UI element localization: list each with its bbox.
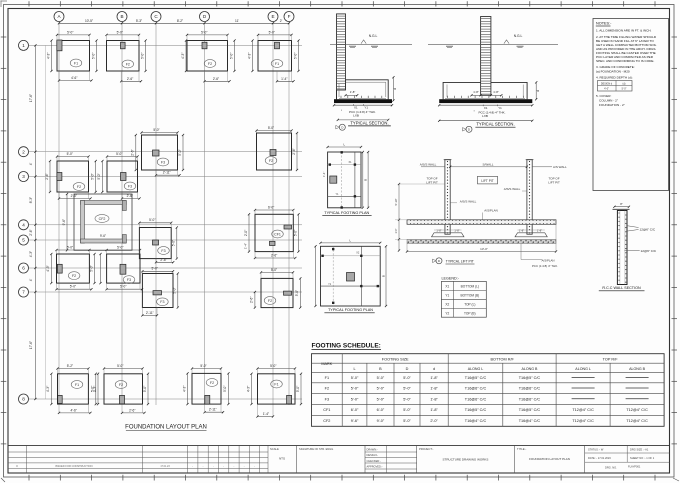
svg-text:1'-4": 1'-4" <box>244 243 248 249</box>
svg-text:X1: X1 <box>445 284 449 288</box>
svg-text:F3: F3 <box>161 160 165 164</box>
svg-text:5'-0": 5'-0" <box>117 30 123 34</box>
svg-text:Y1: Y1 <box>445 293 449 297</box>
svg-text:T12@4" C/C: T12@4" C/C <box>626 419 648 423</box>
svg-text:5'-0": 5'-0" <box>140 53 144 59</box>
svg-text:DESIGN:-: DESIGN:- <box>367 453 379 457</box>
svg-text:2'-6": 2'-6" <box>45 173 49 179</box>
svg-text:5'-0": 5'-0" <box>271 268 277 272</box>
svg-text:SHEET NO :- 1 OF 1: SHEET NO :- 1 OF 1 <box>630 456 655 460</box>
svg-text:D: D <box>406 367 409 371</box>
svg-text:8'-3": 8'-3" <box>29 197 33 203</box>
svg-text:STATUS :- W: STATUS :- W <box>588 448 604 452</box>
svg-text:F1: F1 <box>275 62 279 66</box>
svg-text:4'-3": 4'-3" <box>46 265 50 271</box>
svg-text:A/S/S WALL: A/S/S WALL <box>504 187 521 191</box>
svg-text:1: 1 <box>22 43 25 48</box>
svg-text:2'-6": 2'-6" <box>213 77 219 81</box>
svg-text:5'-0": 5'-0" <box>351 397 359 401</box>
svg-text:FOUNDATION - 2": FOUNDATION - 2" <box>599 103 625 107</box>
svg-text:CHECKED:-: CHECKED:- <box>367 459 381 463</box>
svg-text:5'-0": 5'-0" <box>116 152 122 156</box>
svg-text:TYPICAL FOOTING PLAN: TYPICAL FOOTING PLAN <box>324 211 369 215</box>
svg-text:1'-8": 1'-8" <box>454 228 459 232</box>
svg-text:6'-0": 6'-0" <box>351 408 359 412</box>
svg-text:5'-0": 5'-0" <box>377 397 385 401</box>
svg-text:PROJECT:-: PROJECT:- <box>419 447 434 451</box>
svg-text:LEGEND:-: LEGEND:- <box>442 277 460 281</box>
svg-text:CF1: CF1 <box>274 232 281 236</box>
svg-text:(d): (d) <box>623 82 626 85</box>
svg-text:5'-0": 5'-0" <box>229 53 233 59</box>
svg-text:9'-6": 9'-6" <box>100 234 106 238</box>
svg-text:TOP (B): TOP (B) <box>464 311 476 315</box>
svg-text:12@6" C/C: 12@6" C/C <box>641 249 657 253</box>
svg-text:ALONG B: ALONG B <box>629 367 646 371</box>
svg-text:4'-3": 4'-3" <box>46 53 50 59</box>
svg-text:17.01.23: 17.01.23 <box>160 465 170 468</box>
svg-text:5'-3": 5'-3" <box>136 19 142 23</box>
svg-text:BOTTOM R/F: BOTTOM R/F <box>490 358 514 362</box>
svg-text:5'-0": 5'-0" <box>67 245 73 249</box>
svg-text:DRAWN:-: DRAWN:- <box>367 448 378 452</box>
svg-text:T16@5" C/C: T16@5" C/C <box>519 408 541 412</box>
svg-text:B: B <box>120 14 123 19</box>
svg-text:1'-8": 1'-8" <box>519 228 524 232</box>
svg-text:F3: F3 <box>325 397 329 401</box>
svg-text:1'-8": 1'-8" <box>430 397 438 401</box>
svg-text:A/S WALL: A/S WALL <box>553 165 567 169</box>
svg-text:5'-0": 5'-0" <box>270 364 276 368</box>
svg-text:3. GRADE OF CONCRETE:: 3. GRADE OF CONCRETE: <box>596 65 635 69</box>
svg-text:4'-6": 4'-6" <box>71 408 77 412</box>
svg-text:2'-11": 2'-11" <box>209 408 217 412</box>
svg-text:9'-6": 9'-6" <box>62 219 66 225</box>
svg-text:TYPICAL SECTION.: TYPICAL SECTION. <box>476 122 514 127</box>
svg-text:X1: X1 <box>484 106 488 110</box>
svg-text:5'-0": 5'-0" <box>120 285 126 289</box>
svg-text:F2: F2 <box>72 274 76 278</box>
svg-text:5'-0": 5'-0" <box>172 240 176 246</box>
svg-text:5'-0": 5'-0" <box>403 419 411 423</box>
svg-text:TYPICAL LIFT PIT: TYPICAL LIFT PIT <box>446 259 474 263</box>
svg-text:5'-0": 5'-0" <box>89 265 93 271</box>
svg-text:5'-0": 5'-0" <box>117 364 123 368</box>
svg-text:8": 8" <box>620 202 622 206</box>
svg-text:13'-0": 13'-0" <box>480 247 488 251</box>
svg-text:BOTTOM (L): BOTTOM (L) <box>461 284 479 288</box>
svg-text:X1: X1 <box>354 105 358 109</box>
svg-text:2: 2 <box>22 149 25 154</box>
svg-text:3: 3 <box>22 174 25 179</box>
svg-text:T16@5" C/C: T16@5" C/C <box>465 408 487 412</box>
svg-text:d: d <box>536 90 540 92</box>
svg-text:2'-11": 2'-11" <box>146 311 154 315</box>
svg-text:F1: F1 <box>74 61 78 65</box>
svg-text:8'-2": 8'-2" <box>177 19 183 23</box>
svg-text:6'-0": 6'-0" <box>268 205 274 209</box>
svg-text:5'-0": 5'-0" <box>117 245 123 249</box>
svg-text:5'-0": 5'-0" <box>403 387 411 391</box>
svg-text:FOOTING SCHEDULE:: FOOTING SCHEDULE: <box>312 342 381 349</box>
svg-text:ISSUED FOR CONSTRUCTION: ISSUED FOR CONSTRUCTION <box>55 464 93 468</box>
svg-text:ALONG L: ALONG L <box>468 367 484 371</box>
svg-text:DESIGN d: DESIGN d <box>601 82 613 85</box>
svg-text:S/WALL: S/WALL <box>483 163 494 167</box>
svg-text:5'-0": 5'-0" <box>268 126 274 130</box>
svg-text:CF1: CF1 <box>323 408 330 412</box>
svg-text:5'-10": 5'-10" <box>394 199 398 206</box>
svg-text:T12@4" C/C: T12@4" C/C <box>572 408 594 412</box>
svg-text:T16@6" C/C: T16@6" C/C <box>519 397 541 401</box>
svg-text:F2: F2 <box>325 387 329 391</box>
svg-text:2'-6": 2'-6" <box>29 229 33 235</box>
svg-text:L: L <box>353 367 355 371</box>
svg-text:4': 4' <box>29 162 33 165</box>
svg-text:B: B <box>379 367 382 371</box>
svg-text:FOOTING SIZE: FOOTING SIZE <box>382 358 409 362</box>
svg-text:ALONG L: ALONG L <box>575 367 591 371</box>
svg-text:DATE :- 17.01.2023: DATE :- 17.01.2023 <box>588 456 611 460</box>
svg-text:5'-0": 5'-0" <box>97 173 101 179</box>
svg-text:17'-6": 17'-6" <box>29 341 33 349</box>
svg-text:F1: F1 <box>274 382 278 386</box>
svg-text:11': 11' <box>235 19 239 23</box>
svg-text:7: 7 <box>22 290 25 295</box>
svg-text:5'-0": 5'-0" <box>152 267 158 271</box>
svg-text:2'-0": 2'-0" <box>430 419 438 423</box>
svg-text:TITLE:-: TITLE:- <box>517 447 526 451</box>
svg-text:d: d <box>393 88 397 90</box>
svg-text:T16@5" C/C: T16@5" C/C <box>519 376 541 380</box>
svg-text:5'-0": 5'-0" <box>178 149 182 155</box>
svg-text:5'-0": 5'-0" <box>293 53 297 59</box>
svg-text:5. COVER:: 5. COVER: <box>596 94 611 98</box>
svg-text:5'-0": 5'-0" <box>67 30 73 34</box>
svg-text:N.G.L: N.G.L <box>514 34 523 38</box>
svg-text:DRG SIZE :- A1: DRG SIZE :- A1 <box>630 448 649 452</box>
svg-text:(a) FOUNDATION - M20: (a) FOUNDATION - M20 <box>596 70 630 74</box>
svg-text:9'-6": 9'-6" <box>351 419 359 423</box>
svg-text:T16@6" C/C: T16@6" C/C <box>519 387 541 391</box>
svg-text:F2: F2 <box>269 159 273 163</box>
svg-text:5'-0": 5'-0" <box>351 387 359 391</box>
svg-text:A/S/PLAN: A/S/PLAN <box>484 209 498 213</box>
svg-text:5'-0": 5'-0" <box>173 287 177 293</box>
svg-text:T16@6" C/C: T16@6" C/C <box>465 387 487 391</box>
svg-text:FOUNDATION LAYOUT PLAN: FOUNDATION LAYOUT PLAN <box>125 425 207 431</box>
svg-text:B: B <box>364 179 368 181</box>
svg-text:5'-0": 5'-0" <box>143 386 147 392</box>
svg-text:9'-0": 9'-0" <box>377 419 385 423</box>
svg-text:1'-8": 1'-8" <box>430 408 438 412</box>
svg-text:5'-0": 5'-0" <box>200 364 206 368</box>
svg-text:1'-4": 1'-4" <box>281 77 287 81</box>
svg-text:5'-0": 5'-0" <box>296 386 300 392</box>
svg-text:F1: F1 <box>325 376 329 380</box>
svg-text:2'-6": 2'-6" <box>250 297 254 303</box>
svg-text:1. ALL DIMENSION ARE IN FT. &: 1. ALL DIMENSION ARE IN FT. & INCH. <box>596 29 652 33</box>
svg-text:1'-8": 1'-8" <box>350 90 356 94</box>
svg-text:A/S/S WALL: A/S/S WALL <box>460 199 477 203</box>
svg-text:A/S/S WALL: A/S/S WALL <box>420 163 437 167</box>
svg-text:5'-0": 5'-0" <box>201 30 207 34</box>
svg-text:6'-0": 6'-0" <box>377 408 385 412</box>
svg-text:MARK: MARK <box>321 362 332 366</box>
svg-text:F3: F3 <box>161 249 165 253</box>
svg-text:SIGNATURE OF STR. ENGG: SIGNATURE OF STR. ENGG <box>299 447 333 451</box>
svg-text:5'-0": 5'-0" <box>223 386 227 392</box>
svg-text:A/S/PLAN: A/S/PLAN <box>541 259 554 263</box>
svg-text:APPROVED:-: APPROVED:- <box>367 464 383 468</box>
svg-text:NTS: NTS <box>279 457 285 461</box>
svg-text:Y1: Y1 <box>364 105 368 109</box>
svg-text:4'-3": 4'-3" <box>247 53 251 59</box>
svg-text:5'-0": 5'-0" <box>91 173 95 179</box>
svg-text:5'-0": 5'-0" <box>403 397 411 401</box>
svg-text:R.C.C WALL SECTION: R.C.C WALL SECTION <box>602 286 641 290</box>
svg-text:5'-0": 5'-0" <box>351 376 359 380</box>
svg-text:T12@4" C/C: T12@4" C/C <box>572 419 594 423</box>
svg-text:2'-6": 2'-6" <box>131 149 135 155</box>
svg-text:2'-11": 2'-11" <box>163 171 171 175</box>
svg-text:2'-6": 2'-6" <box>292 148 296 154</box>
svg-text:4'-6": 4'-6" <box>71 76 77 80</box>
svg-text:LIFT PIT: LIFT PIT <box>548 181 560 185</box>
svg-text:F: F <box>288 14 291 19</box>
svg-text:4'-3": 4'-3" <box>46 386 50 392</box>
svg-text:4'-3": 4'-3" <box>29 251 33 257</box>
svg-text:F3: F3 <box>127 278 131 282</box>
svg-text:1'-0": 1'-0" <box>395 228 398 233</box>
svg-text:E: E <box>271 14 274 19</box>
svg-text:10'-5": 10'-5" <box>85 19 93 23</box>
svg-text:LIFT PIT: LIFT PIT <box>481 179 493 183</box>
svg-text:T12@4" C/C: T12@4" C/C <box>626 408 648 412</box>
svg-text:F2: F2 <box>208 62 212 66</box>
svg-text:T16@4" C/C: T16@4" C/C <box>465 419 487 423</box>
svg-text:ALONG B: ALONG B <box>521 367 538 371</box>
svg-text:5'-0": 5'-0" <box>293 230 297 236</box>
svg-text:N.G.L: N.G.L <box>369 34 378 38</box>
svg-text:SPEC. AND CONFORMING TO IS COD: SPEC. AND CONFORMING TO IS CODE. <box>596 59 654 63</box>
svg-text:LXB: LXB <box>353 114 359 118</box>
svg-text:1'-4": 1'-4" <box>322 172 326 177</box>
svg-text:1'-8": 1'-8" <box>430 387 438 391</box>
svg-text:CF2: CF2 <box>99 217 106 221</box>
svg-text:2'-0": 2'-0" <box>244 230 248 236</box>
svg-text:F2: F2 <box>268 299 272 303</box>
svg-text:4'-3": 4'-3" <box>93 386 97 392</box>
svg-text:5'-0": 5'-0" <box>67 152 73 156</box>
svg-text:2'-6": 2'-6" <box>129 408 135 412</box>
svg-text:5'-0": 5'-0" <box>622 88 627 91</box>
svg-text:6: 6 <box>22 266 25 271</box>
svg-text:TYPICAL FOOTING PLAN: TYPICAL FOOTING PLAN <box>328 308 373 312</box>
svg-text:F3: F3 <box>160 300 164 304</box>
svg-text:CF2: CF2 <box>323 419 330 423</box>
svg-text:5'-0": 5'-0" <box>149 218 155 222</box>
svg-text:4. REQUIRED DEPTH (d):: 4. REQUIRED DEPTH (d): <box>596 76 633 80</box>
svg-text:LXB: LXB <box>482 114 488 118</box>
svg-text:4'-0": 4'-0" <box>604 88 609 91</box>
svg-text:5'-0": 5'-0" <box>91 53 95 59</box>
svg-text:2'-6": 2'-6" <box>271 254 277 258</box>
svg-text:BOTTOM (B): BOTTOM (B) <box>460 293 479 297</box>
svg-text:TYPICAL SECTION.: TYPICAL SECTION. <box>350 120 388 125</box>
svg-text:4'-3": 4'-3" <box>182 386 186 392</box>
svg-text:Y1: Y1 <box>498 106 502 110</box>
svg-text:TOP (L): TOP (L) <box>464 302 475 306</box>
svg-text:NOTES:-: NOTES:- <box>596 22 612 26</box>
svg-text:T16@5" C/C: T16@5" C/C <box>465 376 487 380</box>
svg-text:FLAYP001: FLAYP001 <box>628 465 641 469</box>
svg-text:FOUNDATION LAYOUT PLAN: FOUNDATION LAYOUT PLAN <box>529 457 570 461</box>
svg-text:5'-2": 5'-2" <box>67 364 73 368</box>
svg-text:4'-3": 4'-3" <box>246 386 250 392</box>
svg-text:2'-6": 2'-6" <box>160 258 166 262</box>
svg-text:T16@6" C/C: T16@6" C/C <box>465 397 487 401</box>
svg-text:PCC (1:4:8) 4" THK.: PCC (1:4:8) 4" THK. <box>532 264 558 268</box>
svg-text:5'-0": 5'-0" <box>153 128 159 132</box>
svg-text:1'-8": 1'-8" <box>493 90 499 94</box>
svg-text:F2: F2 <box>77 185 81 189</box>
svg-text:12@6" C/C: 12@6" C/C <box>640 227 656 231</box>
svg-text:DRG. NO.: DRG. NO. <box>605 465 617 469</box>
svg-text:Y2: Y2 <box>445 311 449 315</box>
svg-text:1'-8": 1'-8" <box>537 228 542 232</box>
svg-text:2'-6": 2'-6" <box>127 77 133 81</box>
svg-text:TOP R/F: TOP R/F <box>603 358 619 362</box>
svg-text:X2: X2 <box>445 302 449 306</box>
svg-text:F2: F2 <box>119 383 123 387</box>
svg-text:1'-4": 1'-4" <box>263 412 269 416</box>
svg-text:B: B <box>381 275 385 277</box>
svg-text:F1: F1 <box>75 383 79 387</box>
svg-text:T16@4" C/C: T16@4" C/C <box>519 419 541 423</box>
svg-text:2': 2' <box>280 19 283 23</box>
svg-text:5'-0": 5'-0" <box>403 376 411 380</box>
svg-text:5'-0": 5'-0" <box>403 408 411 412</box>
svg-text:17'-6": 17'-6" <box>29 94 33 102</box>
svg-text:F2: F2 <box>126 62 130 66</box>
svg-text:5: 5 <box>22 238 25 243</box>
svg-text:8: 8 <box>22 397 25 402</box>
svg-text:5'-0": 5'-0" <box>70 285 76 289</box>
svg-text:COLUMN - 2": COLUMN - 2" <box>599 99 618 103</box>
svg-text:5'-0": 5'-0" <box>377 387 385 391</box>
svg-text:F2: F2 <box>210 381 214 385</box>
svg-text:4': 4' <box>29 278 33 281</box>
svg-text:4'-3": 4'-3" <box>181 53 185 59</box>
svg-text:SCALE: SCALE <box>270 447 279 451</box>
svg-text:5'-0": 5'-0" <box>269 30 275 34</box>
svg-text:5'-0": 5'-0" <box>377 376 385 380</box>
svg-text:1'-8": 1'-8" <box>430 376 438 380</box>
svg-text:1'-8": 1'-8" <box>473 90 479 94</box>
svg-text:d: d <box>433 367 435 371</box>
svg-text:F3: F3 <box>128 184 132 188</box>
svg-text:1'-8": 1'-8" <box>436 228 441 232</box>
svg-text:4: 4 <box>22 223 25 228</box>
svg-text:5'-0": 5'-0" <box>295 290 299 296</box>
svg-text:STRUCTURE DRAWING WORKS: STRUCTURE DRAWING WORKS <box>443 458 489 462</box>
